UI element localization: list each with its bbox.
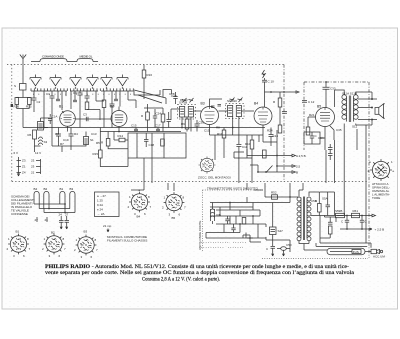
svg-text:C 10: C 10: [268, 80, 275, 84]
svg-text:Z3: Z3: [22, 159, 26, 163]
socket B2 pin numbers: [42, 237, 66, 258]
power transformer secondary winding: [307, 197, 311, 241]
chassis drawing baseline: [254, 189, 263, 191]
junction dot C33 top: [325, 81, 327, 83]
wire S2 leads: [41, 118, 53, 128]
wire rail stubs down: [247, 149, 258, 172]
wire vibrator output corner: [243, 235, 261, 242]
ground arrow C49: [272, 252, 274, 256]
switch wafer stems: [36, 75, 123, 78]
capacitor C12: [302, 101, 307, 103]
svg-text:S5A: S5A: [322, 197, 328, 201]
battery bracket 12V: [36, 159, 41, 174]
wire speaker stubs: [368, 99, 377, 120]
note text block left: [11, 195, 35, 217]
capacitor C59: [345, 216, 349, 230]
wire R12 riser: [279, 92, 281, 125]
svg-text:C4: C4: [73, 91, 77, 95]
svg-text:S3: S3: [44, 140, 48, 144]
capacitor C37: [328, 148, 333, 150]
dotted border left of SW unit: [202, 190, 204, 252]
capacitor C17: [156, 128, 160, 132]
svg-text:FILAMENTI SULLO CHASSIS: FILAMENTI SULLO CHASSIS: [107, 239, 147, 243]
svg-text:S47: S47: [278, 229, 284, 233]
svg-text:B5: B5: [317, 105, 321, 109]
svg-text:R21: R21: [309, 113, 315, 117]
wire antenna lead down: [22, 65, 24, 84]
filament loop B1: [60, 191, 65, 208]
svg-text:27: 27: [65, 213, 69, 217]
resistor R13: [278, 125, 282, 133]
wire psu risers: [325, 216, 337, 223]
switch contact on rail B: [266, 166, 273, 173]
wire SW bottom rail: [266, 237, 290, 252]
wire right rail risers: [263, 130, 277, 172]
junction dots SW: [229, 202, 231, 204]
wire left mesh: [35, 128, 83, 153]
svg-text:S1: S1: [90, 138, 94, 142]
SW antenna spark symbol: [262, 70, 266, 78]
resistor R15: [99, 150, 103, 158]
wire B5 grid left: [308, 117, 316, 127]
wire S1 leads: [82, 132, 86, 147]
battery arrow down: [17, 173, 19, 176]
capacitor C28: [173, 92, 177, 104]
switch wafer SA4: [87, 78, 98, 86]
capacitor C26: [167, 112, 171, 128]
filament loop B4: [34, 191, 39, 204]
ground arrow C22: [66, 225, 68, 229]
wire T1 leads: [171, 109, 201, 132]
wire SW antenna link: [265, 91, 300, 93]
supply rail C: [258, 171, 296, 174]
wire fuse to plug: [365, 251, 371, 253]
wire drops from switch S1: [34, 91, 62, 128]
pin table box: [95, 192, 120, 217]
wire left riser to bus: [17, 105, 30, 128]
power plug socket diagram: [370, 159, 392, 181]
resistor R52: [272, 195, 278, 199]
battery tap Z3: [17, 157, 22, 176]
wire transformer primary top: [335, 90, 345, 107]
svg-text:C15: C15: [131, 124, 137, 128]
wire R19 leads: [147, 104, 149, 132]
filament bus 3: [44, 204, 75, 213]
junction dot rail switch: [265, 171, 267, 173]
main B+ rail: [311, 214, 376, 217]
dotted border bottom of output unit: [262, 258, 368, 260]
svg-text:21: 21: [45, 218, 49, 222]
resistor R23: [263, 150, 267, 158]
capacitor C6b: [73, 100, 77, 102]
svg-text:C18: C18: [149, 143, 155, 147]
junction dots psu: [346, 215, 348, 217]
junction dot link2: [283, 91, 285, 93]
capacitor C33: [323, 82, 330, 108]
wire SW mesh verticals: [206, 183, 290, 238]
svg-text:R11: R11: [217, 132, 223, 136]
wire B5 cathode: [325, 126, 334, 150]
svg-text:C24: C24: [156, 112, 162, 116]
capacitor C30: [195, 120, 200, 132]
grid cap marks above B3: [211, 105, 221, 108]
svg-text:vente separata per onde corte.: vente separata per onde corte. Nelle sei…: [45, 271, 355, 276]
svg-text:B3: B3: [84, 230, 88, 234]
tone control loop: [304, 132, 325, 144]
pentode B1: [60, 111, 76, 127]
triode B4: [254, 107, 272, 125]
wire B3 plate riser: [210, 99, 223, 135]
wire AVC bus: [23, 127, 265, 129]
coil S3: [35, 137, 43, 146]
resistor R60: [328, 226, 332, 234]
ground arrow C21: [60, 225, 62, 229]
svg-text:C13: C13: [91, 132, 97, 136]
resistor R2: [102, 100, 106, 108]
svg-text:CONNESSE: CONNESSE: [11, 212, 28, 216]
svg-text:Z4: Z4: [22, 171, 26, 175]
svg-text:C3: C3: [83, 113, 87, 117]
junction dots speaker lines: [371, 98, 373, 100]
resistor R10: [250, 140, 254, 149]
wire B1 grid cap: [62, 111, 68, 132]
supply rail B: [277, 165, 296, 168]
svg-text:R15: R15: [93, 152, 99, 156]
power plug P1: [371, 249, 383, 254]
svg-text:R61: R61: [353, 209, 359, 213]
resistor R22: [306, 127, 310, 135]
svg-text:MEDIE OL: MEDIE OL: [80, 55, 93, 59]
wire secondary to speaker: [356, 92, 372, 125]
wire switch common bus: [31, 90, 134, 92]
svg-text:B1: B1: [60, 187, 64, 191]
capacitor C5: [85, 96, 90, 102]
oscillator coil S2: [38, 122, 44, 131]
tube socket diagram B2: [44, 234, 65, 255]
capacitor C49: [271, 247, 276, 253]
svg-text:S: S: [14, 84, 16, 88]
tube socket diagram B5: [164, 192, 185, 213]
svg-text:ZOCC. DEL MONTAGGI: ZOCC. DEL MONTAGGI: [198, 176, 231, 180]
wire SW mesh h1: [265, 196, 300, 198]
wire R60 tail: [320, 216, 330, 239]
output transformer S11A winding primary: [342, 95, 347, 122]
svg-text:B2: B2: [44, 187, 48, 191]
dotted border top of SW unit: [203, 189, 264, 191]
wire antenna coil down: [16, 90, 31, 98]
resistor R20: [161, 114, 165, 122]
supply rail A: [247, 154, 296, 157]
capacitor C44: [225, 216, 229, 224]
junction dots on buses: [43, 127, 45, 129]
vibrator coil VIB: [211, 209, 215, 221]
IF transformer T2 dashed shield: [226, 104, 245, 119]
svg-text:C50: C50: [286, 243, 292, 247]
wire fuse feed lines: [304, 238, 371, 250]
tube socket diagram B1: [8, 234, 29, 255]
dash-dot border right of receiver unit: [283, 65, 285, 182]
fuse F16 on supply drop: [143, 65, 145, 71]
antenna A1: [20, 55, 26, 65]
switch wafer SB1: [101, 78, 112, 86]
antenna coupling box S4: [20, 84, 27, 91]
wire oscillator mesh: [87, 101, 104, 120]
wire R20 leads: [144, 108, 163, 132]
svg-text:C20: C20: [171, 94, 177, 98]
capacitor C57: [326, 196, 331, 212]
svg-text:C 12: C 12: [308, 100, 315, 104]
dashed border left of receiver unit: [11, 65, 13, 182]
IF transformer T1 windings: [180, 107, 194, 118]
svg-text:R16: R16: [147, 73, 153, 77]
svg-text:R25: R25: [26, 105, 32, 109]
resistor R9: [185, 119, 189, 129]
resistor R25: [28, 98, 32, 105]
electrolytic C50: [279, 247, 289, 251]
svg-text:C15: C15: [204, 129, 210, 133]
svg-text:Consuma 2,8 A a 12 V. (V. calo: Consuma 2,8 A a 12 V. (V. calori a parte…: [142, 278, 220, 283]
output transformer S11B winding secondary: [354, 95, 359, 122]
svg-text:R24: R24: [267, 129, 273, 133]
wire SW mesh h8: [206, 237, 266, 239]
svg-text:+ 2,5 B: + 2,5 B: [375, 228, 385, 232]
wire drops from switch S3: [34, 91, 136, 128]
switch wafer SB2: [117, 78, 128, 86]
capacitor C6: [56, 99, 60, 101]
wire SW mesh h5: [216, 223, 266, 225]
arrow 21mp: [107, 229, 109, 233]
capacitor C14: [269, 128, 274, 143]
svg-text:C17: C17: [155, 124, 161, 128]
wire R15 leads: [100, 128, 128, 167]
choke S47: [270, 227, 277, 235]
parts list dotted row 1: [201, 242, 247, 244]
svg-text:B3: B3: [201, 102, 205, 106]
resistor R48: [242, 218, 246, 225]
svg-text:PHILIPS RADIO - Autoradio Mod.: PHILIPS RADIO - Autoradio Mod. NL 551/V1…: [45, 265, 350, 270]
trimmer marks above T1: [182, 98, 194, 103]
svg-text:R7: R7: [60, 142, 64, 146]
svg-text:C14: C14: [273, 134, 279, 138]
dash-dot border right of output unit: [368, 82, 370, 258]
tube socket diagram B4: [129, 192, 150, 213]
svg-text:A 2,5 B: A 2,5 B: [296, 154, 306, 158]
filament tap 21: [46, 217, 48, 222]
svg-text:C34: C34: [318, 136, 324, 140]
parts list dotted row 2: [201, 247, 243, 249]
terminal 2,5B: [369, 228, 372, 230]
wire R17 leads: [108, 132, 128, 149]
capacitor C36: [310, 132, 314, 144]
svg-text:R4: R4: [74, 132, 78, 136]
capacitor C22: [65, 216, 70, 225]
wire routing to mixer: [134, 90, 166, 104]
svg-text:C1: C1: [46, 92, 50, 96]
svg-text:B4: B4: [254, 102, 258, 106]
svg-text:R5: R5: [96, 141, 100, 145]
capacitor C9: [69, 128, 74, 147]
wire SW mesh h7: [210, 206, 253, 208]
output pentode B5: [316, 108, 335, 127]
svg-text:B4: B4: [34, 187, 38, 191]
socket B3 pin numbers: [74, 238, 98, 259]
tube socket diagram B3: [76, 235, 97, 256]
capacitor C2: [32, 98, 37, 106]
svg-text:B2: B2: [110, 105, 114, 109]
filament tap 27: [36, 217, 38, 222]
note ATTACCO text: [372, 182, 390, 200]
trimmer marks above T2: [230, 98, 243, 103]
switch contact dots: [35, 87, 123, 88]
junction square on left dashed border: [11, 104, 13, 107]
filament loop B3: [70, 191, 75, 212]
wire SW mesh h6: [206, 232, 240, 234]
svg-text:2,5: 2,5: [296, 165, 301, 169]
resistor R17: [106, 139, 110, 147]
capacitor C6c: [114, 99, 118, 101]
svg-text:FUS: FUS: [353, 250, 359, 254]
wire R9 leads: [186, 117, 188, 132]
IF transformer T2 windings: [228, 106, 242, 117]
capacitor C1A: [48, 114, 52, 124]
capacitor C10: [262, 78, 267, 92]
capacitor C24: [153, 109, 157, 128]
wire SW mesh h2: [210, 202, 290, 204]
svg-text:27: 27: [35, 218, 39, 222]
capacitor C11: [234, 145, 244, 153]
svg-text:COMANDO ONDE: COMANDO ONDE: [42, 55, 64, 59]
svg-text:R9: R9: [181, 122, 185, 126]
svg-text:23: 23: [31, 159, 35, 163]
power transformer core: [303, 197, 304, 241]
svg-text:Z1: Z1: [22, 165, 26, 169]
wire mid mesh under B3: [210, 128, 264, 159]
wire transformer top leads: [299, 183, 319, 196]
svg-text:6 V: 6 V: [14, 151, 19, 155]
AF coupling mesh rectangle: [128, 133, 186, 183]
fuse holder FUS: [327, 248, 365, 254]
wire R16 to switch bus: [134, 78, 160, 99]
svg-text:12 V: 12 V: [35, 151, 41, 155]
loudspeaker LS: [375, 104, 385, 118]
resistor R16b: [161, 139, 165, 146]
svg-text:21 mp: 21 mp: [103, 224, 112, 228]
svg-text:UNITA ONDE CORTE: UNITA ONDE CORTE: [198, 221, 202, 250]
choke S59B: [336, 213, 345, 217]
svg-text:C19: C19: [63, 138, 69, 142]
wire R10 leads: [215, 135, 259, 183]
socket B4 pin numbers: [128, 188, 152, 216]
dash-dot border left of output unit: [303, 82, 305, 150]
capacitor C21: [59, 216, 64, 225]
resistor R57: [318, 204, 322, 213]
filament bus 1: [34, 204, 65, 209]
svg-text:B: B: [296, 171, 298, 175]
svg-text:C30: C30: [199, 121, 205, 125]
wire R14 leads: [114, 132, 128, 141]
capacitor C4: [78, 93, 83, 100]
svg-text:R14: R14: [118, 134, 124, 138]
wire T1 top corner: [163, 90, 172, 98]
svg-text:e 24: e 24: [97, 208, 103, 212]
switch wafer SA2: [50, 78, 61, 86]
svg-text:24: 24: [59, 213, 63, 217]
svg-text:R6: R6: [28, 133, 32, 137]
resistor R26: [15, 98, 19, 105]
svg-text:a →27: a →27: [97, 194, 106, 198]
capacitor C1: [50, 96, 55, 104]
junction dot vibrator: [249, 237, 251, 239]
svg-text:B4: B4: [137, 215, 141, 219]
svg-text:R26: R26: [14, 105, 20, 109]
svg-text:C35: C35: [336, 128, 342, 132]
coil S1: [84, 137, 89, 145]
capacitor C38: [328, 144, 333, 160]
svg-text:S11: S11: [352, 125, 357, 129]
svg-text:B3: B3: [70, 187, 74, 191]
wire ground bus: [100, 131, 181, 133]
capacitor C46: [231, 224, 235, 233]
svg-text:TRASMETTITORE VISTO DA SOTTO: TRASMETTITORE VISTO DA SOTTO: [207, 187, 259, 191]
filament junction dots: [64, 203, 66, 205]
capacitor C12a: [282, 112, 287, 114]
dash-dot border top of output unit: [304, 81, 369, 83]
plug socket pin letters: [368, 160, 395, 173]
wire minor switch drops: [58, 91, 116, 100]
chassis socket view: [198, 156, 215, 173]
svg-text:23: 23: [31, 165, 35, 169]
junction dot link: [270, 91, 272, 93]
switch position number specks: [33, 93, 131, 95]
switch wafer SA3: [70, 78, 81, 86]
svg-text:TORE: TORE: [372, 196, 380, 200]
wire drops from switch S2: [71, 91, 96, 109]
switch wafer SA1: [30, 78, 41, 86]
resistor R1: [85, 102, 89, 110]
junction dots rails: [276, 155, 278, 157]
wire rectifier mesh: [319, 192, 334, 216]
wire SW to chassis links: [131, 183, 265, 191]
ground arrow C50: [282, 250, 284, 256]
capacitor C58: [328, 217, 333, 224]
resistor R14: [119, 138, 125, 142]
resistor R61: [352, 213, 360, 217]
wire SW mesh h4: [210, 215, 260, 217]
wire SW mesh h3: [216, 209, 260, 211]
output transformer core: [349, 96, 350, 123]
band-switch bracket: [31, 59, 98, 62]
capacitor C15: [134, 128, 138, 132]
dashed border top of receiver unit: [7, 64, 284, 66]
svg-text:B5: B5: [172, 216, 176, 220]
svg-text:ACC.UM: ACC.UM: [373, 255, 385, 259]
power transformer primary winding: [297, 197, 301, 241]
capacitor C8: [56, 128, 61, 147]
resistor R11: [222, 130, 226, 138]
wire transformer bottom leads: [299, 241, 309, 251]
svg-text:B1: B1: [59, 105, 63, 109]
IF transformer T1 dashed shield: [178, 105, 196, 120]
wire T2 leads: [219, 111, 255, 135]
pin table rows: [97, 194, 106, 216]
resistor R6: [33, 130, 37, 139]
wire ground rail psu: [340, 228, 372, 230]
wire S47 leads: [272, 203, 274, 247]
pentode B2: [111, 111, 127, 127]
svg-text:C1A: C1A: [52, 115, 58, 119]
filament loop B2: [44, 191, 49, 208]
svg-text:C2: C2: [37, 100, 41, 104]
